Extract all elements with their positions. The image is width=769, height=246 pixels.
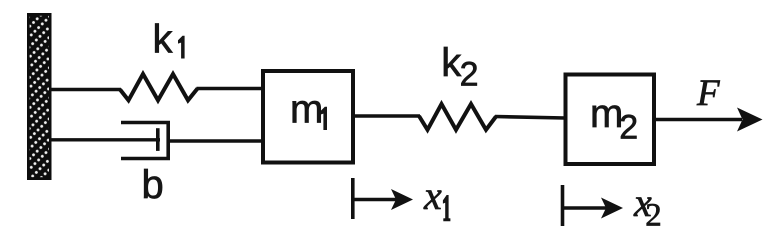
wire wall to spring k1 [50,88,121,92]
damper cylinder b [121,123,168,159]
label m2 [590,92,638,147]
force F wire from mass m2 [655,118,742,122]
svg-text:2: 2 [619,109,638,147]
wire damper cylinder to mass m1 [168,139,263,142]
label x2 [633,180,662,233]
svg-text:2: 2 [645,198,662,234]
svg-text:b: b [142,163,164,207]
svg-text:k: k [153,18,174,62]
displacement reference bar x2 [561,185,565,226]
mass m1 box [263,71,353,163]
label k1 [153,18,185,62]
displacement arrow x2 [563,198,624,219]
label x1 [423,173,450,221]
spring k1 [120,74,198,100]
label k2 [441,41,478,94]
wire spring k2 to mass m2 [495,117,565,119]
wire mass m1 to spring k2 [353,114,420,118]
force F arrowhead [737,108,763,132]
svg-text:x: x [423,173,442,218]
mass m2 box [566,75,655,165]
displacement reference bar x1 [351,178,355,219]
wall fixed support [27,13,52,180]
damper piston plate [156,128,160,151]
svg-text:F: F [696,73,720,114]
wire wall to damper piston rod [50,138,160,141]
wire spring k1 to mass m1 [197,87,264,91]
displacement arrow x1 [353,189,413,210]
svg-text:m: m [290,87,323,131]
svg-text:2: 2 [460,56,479,94]
label m1 [290,87,327,131]
spring k2 [419,104,496,130]
